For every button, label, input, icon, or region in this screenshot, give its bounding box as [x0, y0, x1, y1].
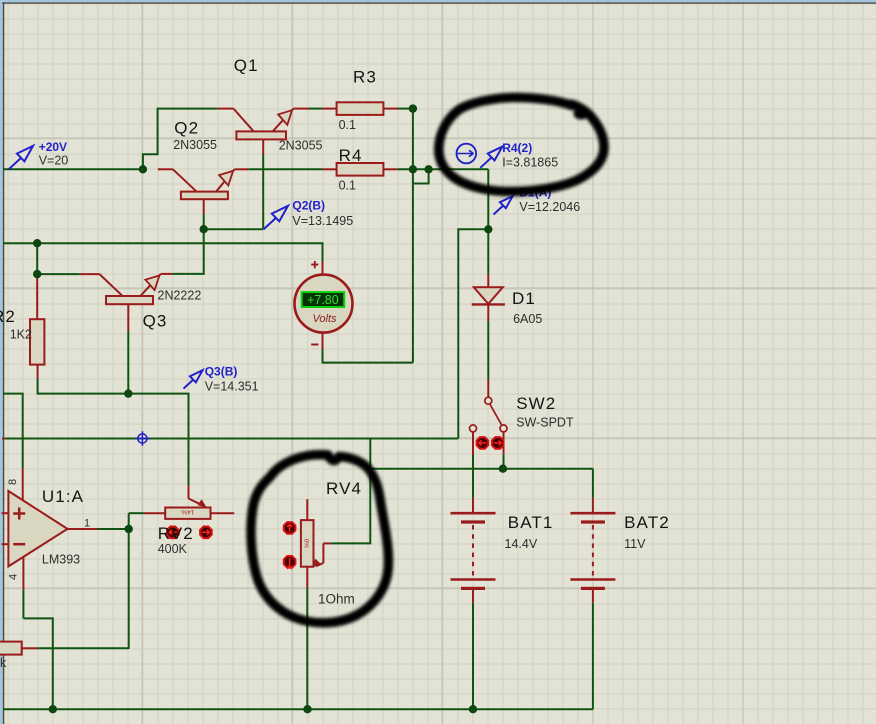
- svg-text:8: 8: [7, 479, 19, 485]
- svg-text:V=13.1495: V=13.1495: [292, 214, 353, 228]
- svg-text:6A05: 6A05: [513, 312, 542, 326]
- svg-text:RV4: RV4: [326, 479, 362, 498]
- svg-text:R2: R2: [0, 307, 16, 326]
- svg-text:V=14.351: V=14.351: [205, 380, 259, 394]
- svg-text:1K2: 1K2: [10, 328, 32, 342]
- svg-text:11V: 11V: [624, 537, 646, 551]
- svg-text:1Ohm: 1Ohm: [318, 592, 355, 607]
- svg-text:2N3055: 2N3055: [279, 139, 323, 153]
- svg-text:14%: 14%: [181, 508, 194, 515]
- svg-text:Volts: Volts: [312, 313, 337, 325]
- svg-text:Q2: Q2: [174, 119, 199, 138]
- svg-text:D1: D1: [512, 289, 536, 308]
- svg-text:2N2222: 2N2222: [158, 289, 202, 303]
- svg-text:2N3055: 2N3055: [173, 138, 217, 152]
- svg-text:V=20: V=20: [39, 153, 69, 167]
- svg-text:4: 4: [8, 574, 20, 580]
- svg-text:Q3(B): Q3(B): [205, 364, 238, 378]
- svg-text:Q3: Q3: [143, 312, 168, 331]
- svg-text:R4: R4: [339, 146, 363, 165]
- svg-text:LM393: LM393: [42, 553, 80, 567]
- svg-text:0.1: 0.1: [339, 118, 356, 132]
- svg-text:V=12.2046: V=12.2046: [519, 200, 580, 214]
- svg-text:Q1: Q1: [234, 56, 259, 75]
- svg-text:RV2: RV2: [158, 524, 194, 543]
- svg-text:BAT2: BAT2: [624, 513, 670, 532]
- svg-text:I=3.81865: I=3.81865: [502, 156, 558, 170]
- svg-text:400K: 400K: [158, 542, 188, 556]
- svg-text:U1:A: U1:A: [42, 487, 84, 506]
- svg-text:0.1: 0.1: [339, 178, 356, 192]
- svg-text:0%: 0%: [303, 539, 310, 549]
- svg-text:1: 1: [84, 518, 90, 530]
- svg-text:R3: R3: [353, 68, 377, 87]
- svg-text:SW2: SW2: [516, 394, 556, 413]
- svg-text:R4(2): R4(2): [502, 141, 532, 155]
- svg-text:SW-SPDT: SW-SPDT: [516, 415, 574, 429]
- svg-text:BAT1: BAT1: [508, 513, 554, 532]
- svg-text:+20V: +20V: [39, 140, 67, 154]
- svg-text:Q2(B): Q2(B): [292, 199, 325, 213]
- svg-text:k: k: [0, 656, 7, 670]
- svg-text:+7.80: +7.80: [307, 293, 339, 307]
- svg-text:14.4V: 14.4V: [505, 537, 538, 551]
